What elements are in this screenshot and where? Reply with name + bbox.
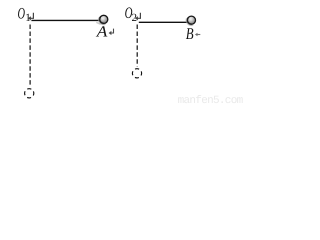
line-break arrow after B bbox=[196, 34, 200, 36]
svg-text:A: A bbox=[96, 24, 108, 41]
dashed vertical line below O2 bbox=[136, 25, 138, 67]
label A bbox=[96, 24, 108, 41]
paragraph mark after O1 bbox=[30, 13, 34, 19]
wire: string from O1 to ball A bbox=[31, 19, 101, 21]
label O2 bbox=[125, 5, 137, 24]
svg-text:manfen5.com: manfen5.com bbox=[178, 95, 244, 105]
ball B bbox=[186, 16, 195, 25]
paragraph mark after A bbox=[110, 29, 113, 33]
watermark manfen5.com bbox=[178, 95, 244, 107]
dashed circle: ball A at lowest point bbox=[25, 89, 34, 98]
svg-text:B: B bbox=[186, 24, 194, 43]
dashed circle: ball B at lowest point bbox=[132, 69, 141, 78]
wire: string from O2 to ball B bbox=[139, 21, 189, 23]
label B bbox=[186, 24, 194, 43]
svg-text:O: O bbox=[18, 5, 26, 22]
paragraph mark after O2 bbox=[137, 13, 141, 19]
ball A bbox=[96, 15, 107, 24]
dashed vertical line below O1 bbox=[29, 25, 31, 87]
label O1 bbox=[18, 5, 31, 24]
